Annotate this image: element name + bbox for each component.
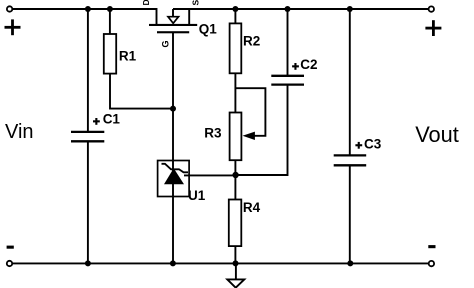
svg-text:Vout: Vout — [415, 122, 459, 147]
wire Vout rail — [173, 8, 429, 10]
wire U1 cathode bottom lead — [172, 197, 174, 264]
svg-text:R2: R2 — [243, 34, 260, 49]
node R4 bottom — [233, 260, 239, 266]
svg-text:U1: U1 — [188, 188, 206, 203]
wire C1 bottom lead — [87, 141, 89, 263]
capacitor C1 — [71, 112, 120, 142]
node C2 top — [285, 6, 291, 12]
wire R3 bottom lead — [234, 160, 236, 175]
wire C2 top lead — [287, 9, 289, 76]
node C3 top — [347, 6, 353, 12]
wire R2 bottom to R3 top — [234, 73, 236, 112]
terminal input negative — [7, 246, 14, 267]
transistor Q1 — [141, 0, 217, 48]
capacitor C2 — [271, 57, 317, 85]
svg-text:S: S — [191, 0, 201, 6]
wire U1 reference pin — [184, 174, 236, 176]
node C3 bottom — [347, 260, 353, 266]
resistor R1 — [104, 34, 137, 74]
node U1 bottom — [170, 260, 176, 266]
ground — [227, 263, 244, 287]
wire C3 top lead — [349, 9, 351, 155]
node R1 top — [107, 6, 113, 12]
svg-text:C3: C3 — [364, 136, 382, 151]
svg-text:D: D — [141, 0, 151, 6]
wire bottom rail — [12, 262, 429, 264]
terminal output negative — [428, 245, 435, 266]
wire node to C2 bottom — [236, 86, 288, 176]
shunt reference U1 — [158, 161, 206, 203]
svg-text:R4: R4 — [243, 200, 261, 215]
node gate junction — [170, 106, 176, 112]
wire gate lead — [172, 33, 174, 161]
node feedback junction — [232, 172, 238, 178]
wire R4 bottom lead — [234, 246, 236, 263]
wire wiper loop — [235, 88, 265, 136]
wire R1 top lead — [109, 9, 111, 34]
wire R4 top lead — [234, 175, 236, 200]
svg-text:C2: C2 — [300, 57, 317, 72]
potentiometer R3 — [204, 113, 255, 161]
svg-text:Q1: Q1 — [199, 22, 218, 37]
capacitor C3 — [334, 136, 382, 165]
terminal input positive — [5, 6, 21, 35]
svg-text:R1: R1 — [119, 49, 137, 64]
svg-text:Vin: Vin — [5, 121, 34, 143]
node C1 bottom — [85, 260, 91, 266]
wire R2 top lead — [234, 9, 236, 23]
svg-text:C1: C1 — [103, 112, 121, 127]
resistor R2 — [230, 23, 261, 73]
terminal output positive — [425, 6, 441, 36]
wire R1 bottom to gate node — [110, 74, 173, 109]
resistor R4 — [229, 200, 261, 247]
node R2 top — [232, 6, 238, 12]
node C1 top — [85, 6, 91, 12]
svg-text:R3: R3 — [204, 126, 222, 141]
wire Vin rail to Q1 drain — [12, 9, 156, 25]
wire C1 top lead — [87, 9, 89, 131]
wire C3 bottom lead — [349, 165, 351, 263]
svg-text:G: G — [161, 40, 171, 47]
